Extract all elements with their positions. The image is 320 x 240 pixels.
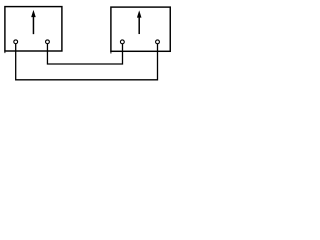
source box U1 (left) — [5, 7, 62, 51]
U2 bottom-left corner overshoot — [110, 51, 112, 53]
U1 bottom-left corner overshoot — [4, 51, 6, 53]
terminal T3 — [120, 40, 124, 44]
source box U2 (right) — [111, 7, 170, 51]
wire T1 to T4 (outer bottom loop) — [16, 44, 158, 80]
terminal T4 — [156, 40, 160, 44]
arrow in U2 — [137, 12, 141, 34]
arrow in U1 — [32, 11, 36, 33]
terminal T1 — [14, 40, 18, 44]
terminal T2 — [46, 40, 50, 44]
wire T2 to T3 (mid loop) — [47, 44, 122, 64]
